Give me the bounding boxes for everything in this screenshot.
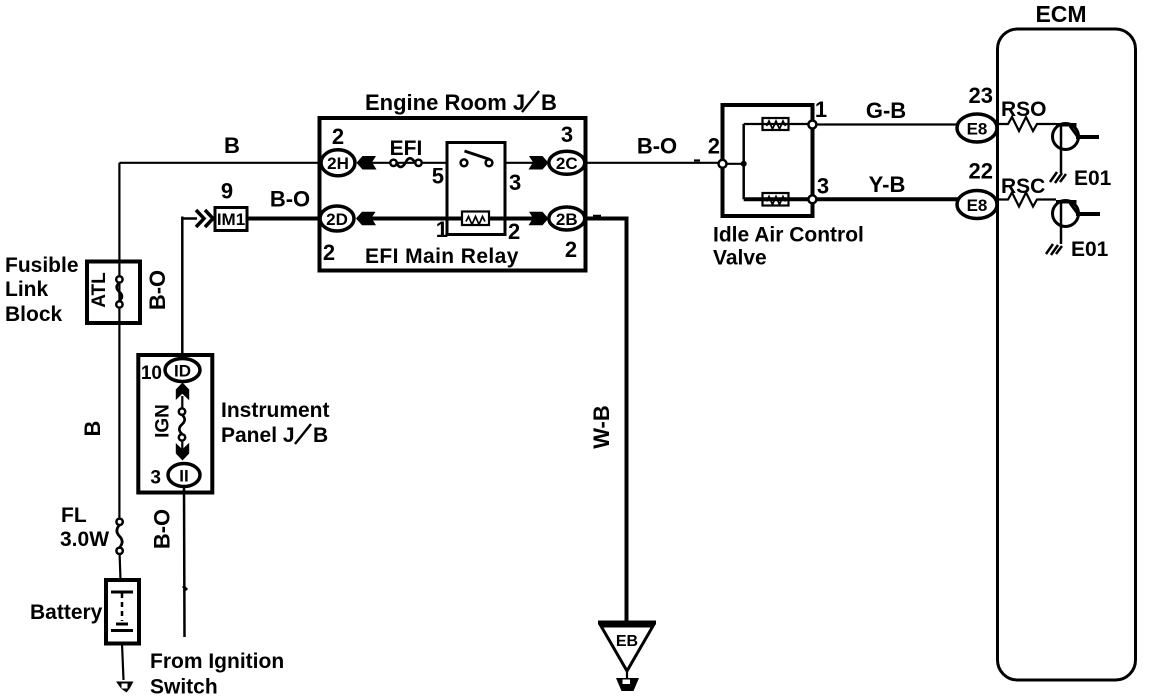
arrow up <box>176 383 189 401</box>
svg-text:2B: 2B <box>556 210 578 229</box>
svg-text:Y-B: Y-B <box>869 172 906 197</box>
svg-text:EFI: EFI <box>390 137 423 160</box>
fuse IGN <box>179 408 185 414</box>
svg-text:IGN: IGN <box>153 404 174 438</box>
fuse FL <box>116 519 122 525</box>
pin 3 circle <box>808 195 816 203</box>
svg-text:Fusible: Fusible <box>5 254 79 277</box>
fuse EFI <box>390 160 396 166</box>
svg-text:1: 1 <box>436 217 448 242</box>
wire 2D row to relay <box>371 217 462 221</box>
svg-text:G-B: G-B <box>866 98 906 123</box>
Fusible Link Block box <box>87 262 140 324</box>
resistor RSC <box>995 193 1056 207</box>
svg-text:B-O: B-O <box>637 134 677 159</box>
arrow down <box>176 443 189 461</box>
svg-text:IM1: IM1 <box>217 210 245 229</box>
svg-text:W-B: W-B <box>589 405 614 449</box>
svg-text:23: 23 <box>969 83 993 108</box>
inner wire pin2 <box>727 163 744 165</box>
fusible link ATL <box>116 276 122 282</box>
svg-text:EB: EB <box>616 633 638 650</box>
svg-text:B-O: B-O <box>150 509 175 549</box>
label Instrument Panel J/B <box>221 399 330 447</box>
Idle Air Control Valve box <box>723 105 813 216</box>
connector II <box>168 464 200 487</box>
connector 2H <box>321 150 355 176</box>
wire B vertical <box>118 163 120 521</box>
svg-text:II: II <box>179 467 188 486</box>
wire B-O vertical <box>181 217 184 360</box>
wire 2B out <box>584 219 627 623</box>
wire Y-B <box>816 197 960 201</box>
tick <box>183 586 187 590</box>
svg-text:2: 2 <box>708 134 720 159</box>
connector 2D <box>320 206 354 231</box>
coil L1 <box>763 118 789 130</box>
svg-text:E8: E8 <box>967 120 988 139</box>
coil L2 <box>763 193 789 206</box>
wire coil to arrow <box>489 217 533 221</box>
wire to fuse <box>181 396 183 412</box>
relay box <box>447 143 505 235</box>
relay switch <box>461 159 468 166</box>
svg-text:3: 3 <box>509 170 521 195</box>
svg-text:From Ignition: From Ignition <box>150 650 284 673</box>
svg-text:E8: E8 <box>967 196 988 215</box>
svg-text:2: 2 <box>508 219 520 244</box>
connector ID <box>165 359 200 382</box>
svg-text:3: 3 <box>150 468 161 489</box>
svg-text:Block: Block <box>5 303 63 326</box>
wire II down <box>183 487 186 638</box>
svg-text:3: 3 <box>817 174 829 199</box>
svg-text:E01: E01 <box>1071 238 1109 261</box>
tick <box>593 215 601 218</box>
svg-text:2: 2 <box>565 237 577 262</box>
wire B horizontal <box>119 162 321 164</box>
ground E01 bottom <box>1046 244 1062 255</box>
svg-text:10: 10 <box>141 363 162 384</box>
junction <box>741 161 747 167</box>
svg-text:2C: 2C <box>556 154 578 173</box>
svg-text:3.0W: 3.0W <box>60 528 109 551</box>
transistor Q2 <box>1053 201 1079 245</box>
svg-text:Idle Air Control: Idle Air Control <box>713 224 864 247</box>
svg-text:B: B <box>80 421 105 437</box>
chevrons <box>196 210 204 227</box>
svg-text:Panel J: Panel J <box>221 424 295 447</box>
svg-text:Battery: Battery <box>30 601 103 624</box>
svg-text:3: 3 <box>561 122 573 147</box>
relay coil <box>462 212 489 226</box>
pin 2 circle <box>719 160 727 168</box>
arrow into 2H <box>357 156 377 170</box>
collector stub Q2 <box>1076 212 1100 216</box>
svg-text:ID: ID <box>174 362 191 381</box>
wire FL to battery <box>118 554 121 580</box>
svg-text:E01: E01 <box>1074 167 1112 190</box>
wire IM1 to 2D <box>247 217 320 221</box>
svg-text:2: 2 <box>323 240 335 265</box>
svg-text:EFI Main Relay: EFI Main Relay <box>365 245 519 268</box>
Engine Room J/B box <box>320 118 586 271</box>
arrow into 2B <box>529 212 549 226</box>
connector 2B <box>549 207 585 230</box>
resistor RSO <box>995 117 1056 131</box>
svg-text:ECM: ECM <box>1035 1 1086 27</box>
svg-text:B: B <box>224 133 240 158</box>
svg-text:Engine Room J: Engine Room J <box>365 90 525 115</box>
svg-text:9: 9 <box>221 179 233 204</box>
svg-text:B: B <box>541 90 557 115</box>
ground EB <box>598 621 656 625</box>
connector E8 bottom <box>957 191 997 219</box>
svg-text:B-O: B-O <box>145 270 170 310</box>
top branch <box>744 123 809 125</box>
svg-text:2H: 2H <box>327 154 349 173</box>
svg-text:B: B <box>313 424 328 447</box>
collector stub Q1 <box>1076 135 1099 139</box>
pin 1 circle <box>808 121 816 129</box>
wire relay to 2C <box>505 162 533 164</box>
wire 2C to valve (B-O) <box>584 162 719 164</box>
battery <box>106 580 139 644</box>
Instrument Panel J/B box <box>138 355 212 493</box>
wire 2H to relay <box>372 162 447 164</box>
connector IM1 <box>215 208 247 231</box>
ground E01 top <box>1050 172 1066 183</box>
wire G-B <box>816 123 960 125</box>
wire battery to ground <box>122 644 124 681</box>
svg-text:ATL: ATL <box>89 272 110 308</box>
ECM box <box>998 29 1136 680</box>
svg-text:Valve: Valve <box>713 247 767 270</box>
svg-text:RSC: RSC <box>1001 175 1045 198</box>
transistor Q1 <box>1053 124 1079 174</box>
connector E8 top <box>957 114 997 142</box>
svg-text:2D: 2D <box>326 210 348 229</box>
svg-text:RSO: RSO <box>1001 98 1047 121</box>
svg-text:FL: FL <box>61 504 87 527</box>
svg-text:Link: Link <box>5 278 48 301</box>
bottom branch <box>744 197 809 201</box>
svg-text:B-O: B-O <box>270 187 310 212</box>
label Engine Room J/B <box>365 90 557 115</box>
svg-text:2: 2 <box>332 124 344 149</box>
wire fuse to arrow <box>181 440 183 452</box>
arrow into 2C <box>529 156 549 170</box>
svg-text:Instrument: Instrument <box>221 399 330 422</box>
connector 2C <box>549 151 585 174</box>
wire corner to chevrons <box>182 217 197 220</box>
svg-text:1: 1 <box>815 97 827 122</box>
svg-text:5: 5 <box>432 164 444 189</box>
arrow into 2D <box>356 212 376 226</box>
ground battery <box>116 682 134 693</box>
svg-text:22: 22 <box>969 159 993 184</box>
inner vertical <box>742 124 745 199</box>
svg-text:Switch: Switch <box>150 676 218 699</box>
